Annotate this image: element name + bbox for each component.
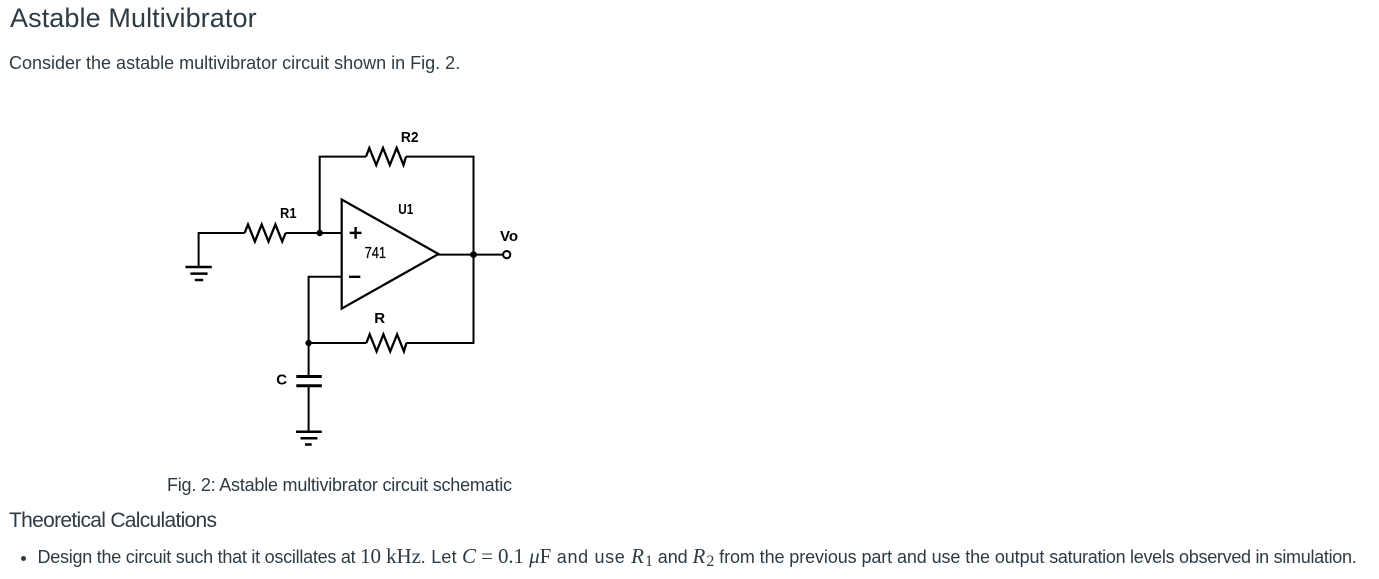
wire minus input (309, 277, 342, 343)
svg-text:C: C (276, 372, 287, 389)
wire op-amp output (439, 254, 504, 256)
wire bottom feedback left (309, 342, 367, 344)
minus input symbol (349, 276, 360, 278)
svg-text:R: R (374, 310, 385, 327)
resistor R (366, 334, 406, 351)
svg-text:R1: R1 (280, 205, 297, 222)
wire output vertical (473, 157, 475, 344)
plus input symbol (350, 227, 362, 239)
wire capacitor to ground (308, 387, 310, 432)
svg-text:741: 741 (365, 245, 387, 262)
ground (bottom) (296, 432, 322, 445)
node junction at capacitor (305, 340, 311, 346)
figure caption (167, 476, 512, 494)
resistor R2 (366, 148, 406, 165)
wire junction up to feedback (319, 157, 321, 233)
terminal Vo circle (503, 251, 510, 258)
ground (left input) (186, 267, 212, 280)
node junction at output (470, 251, 477, 258)
svg-text:R2: R2 (401, 129, 419, 146)
wire top feedback left (319, 156, 366, 158)
wire top feedback right (406, 156, 475, 158)
bullet text (38, 543, 1357, 572)
svg-text:Vo: Vo (500, 228, 518, 245)
capacitor C plates (296, 377, 322, 386)
section heading (9, 510, 216, 531)
wire bottom feedback right (406, 342, 474, 344)
intro paragraph (9, 54, 460, 72)
svg-text:U1: U1 (398, 201, 413, 218)
bullet dot (21, 556, 26, 561)
node junction at + input (317, 230, 323, 236)
wire R1 to op-amp + input (286, 232, 342, 234)
wire to capacitor (308, 343, 310, 375)
page title (10, 5, 257, 32)
resistor R1 (245, 225, 286, 242)
op-amp U1 triangle (342, 200, 439, 309)
wire ground to R1 (199, 233, 245, 266)
